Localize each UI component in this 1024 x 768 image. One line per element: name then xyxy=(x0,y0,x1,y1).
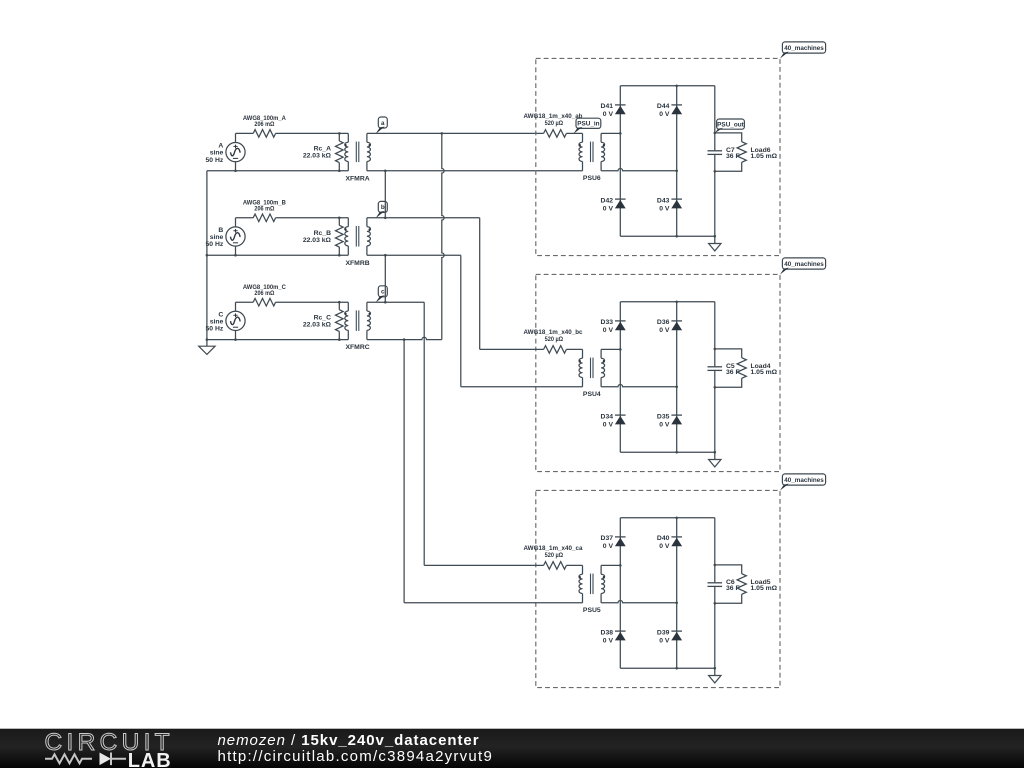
capacitor C7 36 F xyxy=(708,147,740,160)
svg-text:sine: sine xyxy=(210,234,224,241)
wire row B bottom (common return) xyxy=(207,254,348,256)
diode D41 0 V xyxy=(601,103,626,118)
svg-text:0 V: 0 V xyxy=(603,543,614,550)
wire PSU4 primary bottom to phase bus xyxy=(461,386,583,388)
svg-text:22.03 kΩ: 22.03 kΩ xyxy=(303,237,332,244)
wire row C bottom (common return) xyxy=(207,339,348,341)
wire node a down to PSU5 primary bottom xyxy=(403,340,405,603)
diode D40 0 V xyxy=(657,535,682,550)
svg-text:206 mΩ: 206 mΩ xyxy=(254,205,274,212)
transformer PSU6 xyxy=(579,133,605,182)
svg-text:sine: sine xyxy=(210,318,224,325)
junction bridge left rail input PSU6 xyxy=(619,132,622,135)
wire PSU5 primary bottom to phase bus xyxy=(404,602,582,604)
svg-text:40_machines: 40_machines xyxy=(784,261,824,268)
tag 40_machines for PSU4 box xyxy=(782,258,825,269)
svg-text:Rc_B: Rc_B xyxy=(314,230,331,237)
svg-text:0 V: 0 V xyxy=(659,327,670,334)
wire PSU4 input resistor to transformer xyxy=(566,348,582,350)
svg-text:AWG18_1m_x40_ca: AWG18_1m_x40_ca xyxy=(524,545,583,552)
wire bridge bottom rail PSU4 xyxy=(620,451,715,453)
svg-text:0 V: 0 V xyxy=(603,327,614,334)
wire node b vertical down to PSU4 input xyxy=(479,218,481,350)
transformer XFMRC xyxy=(345,302,371,351)
svg-text:Rc_C: Rc_C xyxy=(314,314,331,321)
junction load top tap PSU5 xyxy=(714,564,717,567)
diode D43 0 V xyxy=(657,197,682,212)
svg-text:520 µΩ: 520 µΩ xyxy=(545,120,564,127)
dashed subcircuit box PSU6 (40_machines) xyxy=(536,58,780,255)
wire row B top (source to transformer primary) xyxy=(236,217,254,219)
wire load top tap PSU6 xyxy=(715,133,742,142)
svg-text:PSU_out: PSU_out xyxy=(717,121,745,128)
svg-text:XFMRA: XFMRA xyxy=(346,175,370,182)
tag 40_machines for PSU6 box xyxy=(782,42,825,53)
svg-text:D33: D33 xyxy=(601,319,614,326)
ground PSU4 output xyxy=(709,460,721,467)
svg-text:50 Hz: 50 Hz xyxy=(206,241,224,248)
junction source VC bottom xyxy=(234,338,237,341)
wire node b: XFMRB secondary top rightward xyxy=(367,217,480,219)
transformer PSU4 xyxy=(579,349,605,398)
svg-text:0 V: 0 V xyxy=(603,637,614,644)
resistor AWG8_100m_A 206 m&#937; xyxy=(243,115,286,137)
wire node a vertical (a bus down to XFMRC secondary bottom) with hops xyxy=(442,133,444,339)
junction bridge right rail input PSU5 xyxy=(675,602,678,605)
svg-text:AWG18_1m_x40_ab: AWG18_1m_x40_ab xyxy=(524,113,583,120)
resistor Rc_C 22.03 k&#937; xyxy=(303,302,343,339)
svg-text:0 V: 0 V xyxy=(603,111,614,118)
junction neutral row C xyxy=(206,338,209,341)
svg-text:40_machines: 40_machines xyxy=(784,477,824,484)
svg-text:A: A xyxy=(218,143,223,150)
diode D35 0 V xyxy=(657,413,682,428)
resistor AWG18_1m_x40_ab 520 &#181;&#937; xyxy=(524,113,583,137)
transformer XFMRA xyxy=(345,133,371,182)
diode D33 0 V xyxy=(601,319,626,334)
wire PSU5 secondary top to bridge left rail xyxy=(601,564,620,566)
wire load bottom tap PSU5 xyxy=(715,594,742,603)
wire ground stem PSU5 xyxy=(714,668,716,675)
junction load bottom tap PSU4 xyxy=(714,386,717,389)
svg-text:1.05 mΩ: 1.05 mΩ xyxy=(751,369,778,376)
wire bridge left rail PSU4 xyxy=(619,302,621,452)
svg-text:206 mΩ: 206 mΩ xyxy=(254,290,274,297)
resistor Load4 1.05 m&#937; xyxy=(737,358,778,379)
junction bottom rail / right rail PSU5 xyxy=(675,667,678,670)
wire node c vertical down to PSU4 primary bottom xyxy=(460,255,462,387)
resistor Rc_B 22.03 k&#937; xyxy=(303,218,343,255)
svg-text:D39: D39 xyxy=(657,629,670,636)
wire link XFMRB bottom down to node c xyxy=(384,255,386,302)
svg-text:sine: sine xyxy=(210,150,224,157)
junction bottom rail / right rail PSU4 xyxy=(675,451,678,454)
capacitor C6 36 F xyxy=(708,579,740,592)
svg-text:D42: D42 xyxy=(601,197,614,204)
capacitor C5 36 F xyxy=(708,363,740,376)
wire node c: XFMRC secondary top rightward xyxy=(367,301,424,303)
node tag PSU_in xyxy=(576,118,601,128)
junction bridge left rail input PSU5 xyxy=(619,564,622,567)
svg-text:D37: D37 xyxy=(601,535,614,542)
svg-text:D38: D38 xyxy=(601,629,614,636)
wire ground stem PSU6 xyxy=(714,236,716,243)
node a label tag xyxy=(378,117,387,128)
diode D44 0 V xyxy=(657,103,682,118)
wire XFMRC secondary bottom (node a) with hop xyxy=(367,337,442,339)
svg-text:0 V: 0 V xyxy=(659,543,670,550)
transformer PSU5 xyxy=(579,565,605,614)
svg-text:0 V: 0 V xyxy=(659,111,670,118)
wire bridge left rail PSU5 xyxy=(619,518,621,668)
junction Rc_A bottom xyxy=(338,170,341,173)
CircuitLab logo resistor-diode symbol xyxy=(45,753,126,766)
ground (source neutral) xyxy=(199,346,215,354)
wire bridge right rail PSU5 xyxy=(676,518,678,668)
svg-text:D40: D40 xyxy=(657,535,670,542)
node tag PSU_out xyxy=(717,119,745,129)
wire PSU4 input from phase bus xyxy=(480,348,544,350)
wire common neutral vertical xyxy=(206,171,208,346)
svg-text:PSU6: PSU6 xyxy=(583,175,601,182)
wire bridge left rail PSU6 xyxy=(619,86,621,236)
wire output rail PSU5 xyxy=(714,518,716,668)
dashed subcircuit box PSU4 (40_machines) xyxy=(536,274,780,471)
junction bridge left rail input PSU4 xyxy=(619,348,622,351)
junction Rc_A top xyxy=(338,132,341,135)
resistor Load6 1.05 m&#937; xyxy=(737,142,778,163)
wire bridge right rail PSU4 xyxy=(676,302,678,452)
wire load bottom tap PSU4 xyxy=(715,378,742,387)
wire bridge bottom rail PSU6 xyxy=(620,235,715,237)
svg-text:B: B xyxy=(218,227,223,234)
diode D34 0 V xyxy=(601,413,626,428)
junction source VA bottom xyxy=(234,170,237,173)
tag 40_machines for PSU5 box xyxy=(782,474,825,485)
resistor AWG18_1m_x40_bc 520 &#181;&#937; xyxy=(524,329,583,353)
resistor Rc_A 22.03 k&#937; xyxy=(303,133,343,170)
node c label tag xyxy=(378,286,387,297)
wire PSU6 secondary top to bridge left rail xyxy=(601,132,620,134)
svg-text:LAB: LAB xyxy=(128,750,172,768)
transformer XFMRB xyxy=(345,218,371,267)
svg-text:XFMRB: XFMRB xyxy=(346,260,370,267)
junction Rc_B bottom xyxy=(338,254,341,257)
wire bridge right rail PSU6 xyxy=(676,86,678,236)
junction bridge right rail input PSU6 xyxy=(675,170,678,173)
wire ground stem PSU4 xyxy=(714,452,716,459)
svg-text:0 V: 0 V xyxy=(603,421,614,428)
diode D39 0 V xyxy=(657,629,682,644)
resistor Load5 1.05 m&#937; xyxy=(737,574,778,595)
wire PSU5 secondary bottom to bridge right rail (hop over left rail) xyxy=(601,601,677,603)
junction load top tap PSU6 xyxy=(714,132,717,135)
diode D38 0 V xyxy=(601,629,626,644)
junction source VB bottom xyxy=(234,254,237,257)
wire row C top (source to transformer primary) xyxy=(236,301,254,303)
svg-text:22.03 kΩ: 22.03 kΩ xyxy=(303,321,332,328)
svg-text:0 V: 0 V xyxy=(659,421,670,428)
svg-text:PSU4: PSU4 xyxy=(583,391,601,398)
junction Rc_B top xyxy=(338,217,341,220)
wire XFMRA secondary bottom to PSU6 primary bottom xyxy=(367,170,583,172)
svg-text:D44: D44 xyxy=(657,103,670,110)
ground PSU6 output xyxy=(709,244,721,251)
wire node c vertical down to PSU5 input xyxy=(423,302,425,565)
svg-text:nemozen / 15kv_240v_datacenter: nemozen / 15kv_240v_datacenter xyxy=(218,732,480,749)
wire XFMRB secondary bottom rightward xyxy=(367,254,461,256)
svg-text:c: c xyxy=(381,289,385,296)
wire bridge top rail PSU5 xyxy=(620,517,715,519)
junction XFMRA bottom to node b link xyxy=(384,170,387,173)
wire PSU6 secondary bottom to bridge right rail (hop over left rail) xyxy=(601,169,677,171)
junction ground stem PSU6 xyxy=(714,235,717,238)
svg-text:AWG18_1m_x40_bc: AWG18_1m_x40_bc xyxy=(524,329,583,336)
svg-text:40_machines: 40_machines xyxy=(784,45,824,52)
svg-text:Rc_A: Rc_A xyxy=(314,146,331,153)
node b label tag xyxy=(378,201,387,212)
svg-text:PSU5: PSU5 xyxy=(583,607,601,614)
svg-text:XFMRC: XFMRC xyxy=(346,344,370,351)
junction top rail / right rail PSU5 xyxy=(675,517,678,520)
diode D37 0 V xyxy=(601,535,626,550)
svg-text:http://circuitlab.com/c3894a2y: http://circuitlab.com/c3894a2yrvut9 xyxy=(218,748,494,765)
resistor AWG8_100m_C 206 m&#937; xyxy=(243,284,286,306)
voltage source VC (C sine 50 Hz) xyxy=(206,302,246,339)
svg-text:1.05 mΩ: 1.05 mΩ xyxy=(751,153,778,160)
wire link XFMRA bottom down to node b xyxy=(384,171,386,218)
dashed subcircuit box PSU5 (40_machines) xyxy=(536,490,780,687)
junction ground stem PSU5 xyxy=(714,667,717,670)
wire PSU5 input resistor to transformer xyxy=(566,564,582,566)
wire PSU6 input resistor to transformer xyxy=(566,132,582,134)
junction node c link xyxy=(384,301,387,304)
junction top rail / right rail PSU6 xyxy=(675,85,678,88)
diode D36 0 V xyxy=(657,319,682,334)
svg-text:520 µΩ: 520 µΩ xyxy=(545,336,564,343)
svg-text:1.05 mΩ: 1.05 mΩ xyxy=(751,585,778,592)
svg-text:D35: D35 xyxy=(657,413,670,420)
junction load bottom tap PSU5 xyxy=(714,602,717,605)
svg-text:520 µΩ: 520 µΩ xyxy=(545,552,564,559)
resistor AWG18_1m_x40_ca 520 &#181;&#937; xyxy=(524,545,583,569)
junction bridge right rail input PSU4 xyxy=(675,386,678,389)
svg-text:a: a xyxy=(381,120,385,127)
svg-text:D36: D36 xyxy=(657,319,670,326)
junction top rail / right rail PSU4 xyxy=(675,301,678,304)
wire row A bottom (common return) xyxy=(207,170,348,172)
svg-text:0 V: 0 V xyxy=(659,205,670,212)
ground PSU5 output xyxy=(709,676,721,683)
junction Rc_C top xyxy=(338,301,341,304)
svg-text:C: C xyxy=(218,311,223,318)
wire PSU4 secondary bottom to bridge right rail (hop over left rail) xyxy=(601,385,677,387)
wire output rail PSU4 xyxy=(714,302,716,452)
wire PSU5 input from phase bus xyxy=(424,564,543,566)
svg-text:D41: D41 xyxy=(601,103,614,110)
diode D42 0 V xyxy=(601,197,626,212)
wire bridge top rail PSU4 xyxy=(620,301,715,303)
svg-text:D43: D43 xyxy=(657,197,670,204)
junction ground stem PSU4 xyxy=(714,451,717,454)
svg-text:b: b xyxy=(381,204,385,211)
wire PSU4 secondary top to bridge left rail xyxy=(601,348,620,350)
voltage source VB (B sine 50 Hz) xyxy=(206,218,246,255)
junction bottom rail / right rail PSU6 xyxy=(675,235,678,238)
wire load top tap PSU4 xyxy=(715,349,742,358)
junction node a tap xyxy=(441,132,444,135)
junction neutral row B xyxy=(206,254,209,257)
junction Rc_C bottom xyxy=(338,338,341,341)
junction XFMRB bottom to node c link xyxy=(384,254,387,257)
junction node b link xyxy=(384,217,387,220)
svg-text:206 mΩ: 206 mΩ xyxy=(254,121,274,128)
junction XFMRC bottom to PSU5 link xyxy=(403,338,406,341)
svg-text:0 V: 0 V xyxy=(603,205,614,212)
wire load top tap PSU5 xyxy=(715,565,742,574)
wire bridge top rail PSU6 xyxy=(620,85,715,87)
wire bridge bottom rail PSU5 xyxy=(620,667,715,669)
svg-text:PSU_in: PSU_in xyxy=(577,121,599,128)
junction load top tap PSU4 xyxy=(714,348,717,351)
resistor AWG8_100m_B 206 m&#937; xyxy=(243,199,286,221)
svg-text:22.03 kΩ: 22.03 kΩ xyxy=(303,153,332,160)
svg-text:50 Hz: 50 Hz xyxy=(206,326,224,333)
voltage source VA (A sine 50 Hz) xyxy=(206,133,246,170)
svg-text:D34: D34 xyxy=(601,413,614,420)
wire output rail PSU6 xyxy=(714,86,716,236)
wire load bottom tap PSU6 xyxy=(715,162,742,171)
wire row A top (source to transformer primary) xyxy=(236,132,254,134)
junction load bottom tap PSU6 xyxy=(714,170,717,173)
svg-text:0 V: 0 V xyxy=(659,637,670,644)
svg-text:50 Hz: 50 Hz xyxy=(206,157,224,164)
wire node a: XFMRA secondary top to PSU6 input xyxy=(367,132,544,134)
